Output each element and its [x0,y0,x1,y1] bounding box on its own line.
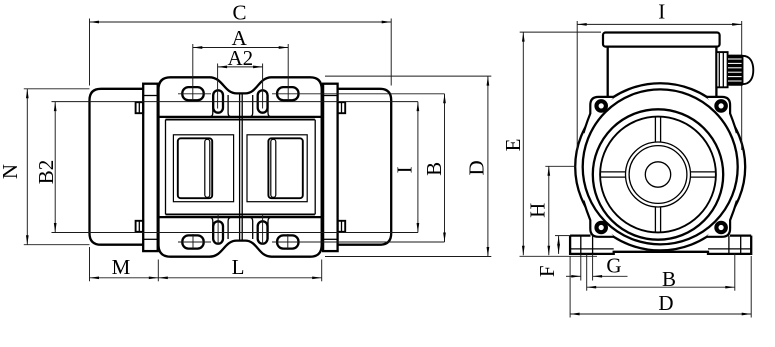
fan hub outer ring [626,142,691,207]
bottom-left oval slot [182,235,203,248]
right body window [247,135,307,202]
right end cover (side view) [338,89,392,245]
left body window [173,135,233,202]
left window panel [178,138,212,198]
cable gland dome [743,56,754,84]
bottom oval vertical marks [192,234,194,250]
left flange plate [143,84,158,251]
dimension B2 line [54,102,56,233]
fan cover inner circle [600,117,716,233]
body left step line [165,120,167,215]
dimension N extensions [24,88,90,90]
bottom-left slot housing [209,217,232,239]
right panel bar [271,139,276,197]
dimension A2 line [218,66,263,68]
dimension H extension [545,165,576,167]
dimension D line (right view) [570,313,751,315]
fan right spoke [690,171,716,173]
dimension E extensions [520,31,601,33]
body right side [321,117,323,217]
fan cover outer circle [593,109,723,239]
fan hub inner ring [629,146,687,204]
top mounting foot [159,77,322,117]
bottom foot top edge [159,216,322,218]
bottom-right oval slot [277,235,298,248]
dimension B line (right view) [587,286,735,288]
right flange plate [323,84,338,251]
left pad recess line [570,248,614,250]
bottom-left corner ear [584,201,615,237]
fan left spoke [600,171,626,173]
top-left oval slot [182,87,203,100]
bottom-right bolt [716,223,725,232]
svg-text:I: I [658,0,665,24]
housing step circle [583,89,738,244]
dimension F line [558,236,560,254]
base outline [570,236,751,254]
dimension A extensions [192,44,194,100]
right flange joint lines [323,95,338,97]
svg-text:N: N [0,164,22,179]
dimension M line [90,277,159,279]
svg-text:B2: B2 [34,160,58,185]
dimension F extension [555,235,570,237]
dimension C line [90,21,392,23]
dimension M extension [89,247,91,281]
housing outer circle [575,83,745,250]
body bottom edge [166,213,315,215]
right flange bottom bolt [338,221,346,232]
cable gland ribbed nut [728,55,744,86]
right window panel [268,138,302,198]
dimension D line (left view) [487,76,489,256]
left flange bottom bolt [136,221,144,232]
svg-text:C: C [232,1,246,25]
body top edge [166,119,315,121]
svg-text:I: I [393,166,417,173]
svg-text:L: L [232,255,245,279]
left panel bar [205,139,210,197]
dimension G lines [566,275,581,277]
dimension B extensions (right view) [586,254,588,291]
bottom-right vertical slot [258,221,268,243]
left flange joint lines [143,95,158,97]
right hole edge lines [728,236,730,254]
svg-text:D: D [464,160,488,175]
svg-text:F: F [535,265,559,277]
bottom slot centreline [52,232,418,234]
svg-text:B: B [422,162,446,176]
left hole edge lines [580,236,582,254]
dimension C extensions [89,19,91,86]
cable gland neck [716,52,727,87]
top-left bolt [597,101,606,110]
bottom-left vertical slot [213,221,223,243]
dimension E line [522,32,524,255]
dimension I line (left view) [417,102,419,233]
left end cover (side view) [90,89,144,245]
top oval centreline [178,93,211,95]
top-right slot housing [249,95,272,117]
svg-text:A2: A2 [227,46,253,70]
dimension B line (left view) [444,94,446,242]
top-right bolt [716,101,725,110]
dimension I extensions (right view) [576,21,578,152]
bottom-right corner ear [706,201,737,237]
dimension N line [26,89,28,245]
top-left slot housing [209,95,232,117]
top slot centreline [52,101,418,103]
dimension A line [193,47,288,49]
dimension D extensions (left view) [325,75,491,77]
svg-text:H: H [526,203,550,218]
top foot bottom edge [159,116,322,118]
top-right vertical slot [258,90,268,112]
top-left vertical slot [213,90,223,112]
bottom-left bolt [597,223,606,232]
central slit [239,94,241,241]
svg-text:B: B [662,267,676,291]
fan top spoke [654,117,656,143]
right pad recess line [708,248,751,250]
top-right oval slot [277,87,298,100]
right flange top bolt [338,102,346,113]
svg-text:M: M [112,255,131,279]
dimension I line (right view) [577,23,742,25]
base top edges [570,234,590,236]
terminal box lid [603,33,720,47]
top-right corner ear [706,97,737,133]
svg-text:E: E [501,139,525,152]
terminal box sides [607,47,609,97]
bottom oval centreline [178,241,211,243]
dimension H line [548,166,550,255]
body right step line [314,120,316,215]
dimension D extensions (right view) [569,256,571,318]
fan shaft hole [645,162,670,187]
svg-text:G: G [606,253,621,277]
dimension G extensions [580,254,582,281]
body left side [157,117,159,217]
dimension A2 extensions [217,64,219,109]
bottom-right slot housing [249,217,272,239]
left flange top bolt [136,102,144,113]
bottom mounting foot [159,217,322,257]
top-left corner ear [584,97,615,133]
fan bottom spoke [654,207,656,233]
svg-text:D: D [658,291,673,315]
dimension L extensions [157,260,159,282]
dimension L line [158,277,321,279]
bottom slot vertical marks [217,215,219,245]
